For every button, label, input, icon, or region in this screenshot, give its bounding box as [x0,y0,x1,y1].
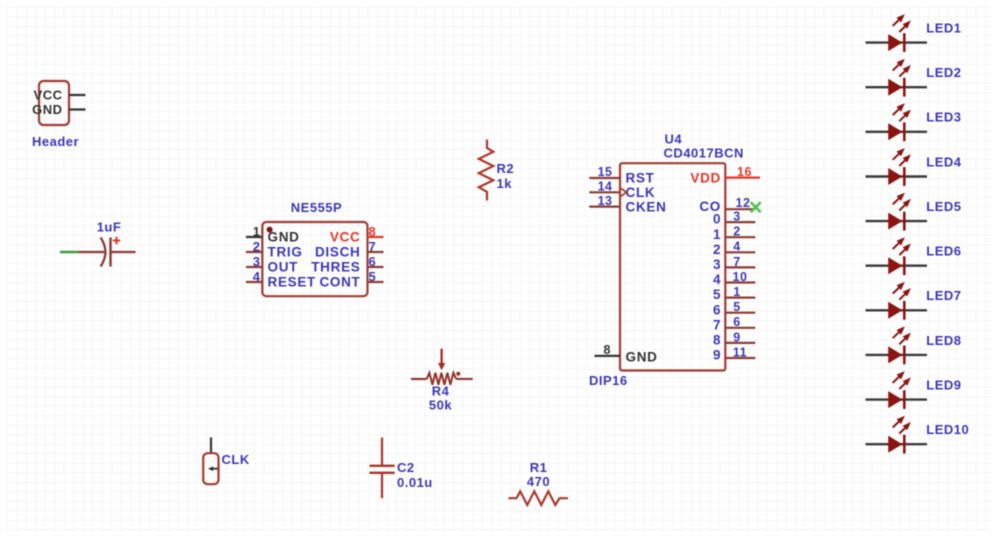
U4 pin 15 (RST) [589,165,654,186]
svg-text:CLK: CLK [222,452,250,467]
svg-text:2: 2 [733,225,740,239]
LED LED2 [866,59,928,97]
svg-text:9: 9 [713,348,721,363]
svg-text:OUT: OUT [268,260,299,275]
svg-text:9: 9 [733,330,740,344]
svg-text:8: 8 [713,333,721,348]
svg-text:3: 3 [713,257,721,272]
svg-text:VDD: VDD [690,170,721,185]
NE555P pin 1 (GND) [246,224,300,245]
NE555P pin 6 (THRES) [311,254,383,275]
svg-text:15: 15 [598,165,613,179]
svg-text:6: 6 [713,302,721,317]
svg-text:CKEN: CKEN [626,199,667,214]
IC U4 body [620,163,725,370]
svg-text:10: 10 [733,270,748,284]
NE555P pin 4 (RESET) [246,269,316,290]
svg-text:13: 13 [598,194,613,208]
svg-text:7: 7 [369,239,377,254]
svg-text:DISCH: DISCH [315,245,361,260]
svg-text:LED4: LED4 [926,154,962,169]
svg-text:12: 12 [736,196,751,210]
svg-text:4: 4 [713,272,721,287]
U4 pin 9 (out 8) [713,330,755,347]
NE555P pin 2 (TRIG) [246,239,303,260]
svg-text:3: 3 [253,254,261,269]
svg-text:2: 2 [713,242,721,257]
svg-text:CD4017BCN: CD4017BCN [664,145,744,160]
svg-text:4: 4 [733,240,740,254]
port CLK box [203,453,218,484]
svg-text:CONT: CONT [319,275,360,290]
U4 pin 12 (CO) [699,196,755,214]
svg-text:RESET: RESET [268,275,317,290]
svg-text:R1: R1 [530,460,548,475]
svg-text:6: 6 [369,254,377,269]
svg-text:2: 2 [253,239,261,254]
svg-text:5: 5 [733,300,740,314]
svg-text:1: 1 [713,227,721,242]
svg-text:C2: C2 [397,460,415,475]
U4 pin 7 (out 3) [713,255,755,272]
Header pin GND [32,102,85,117]
U4 pin 14 (CLK) [589,180,655,201]
svg-text:DIP16: DIP16 [589,373,628,388]
no-connect X on pin 12 [751,202,761,212]
svg-text:5: 5 [713,287,721,302]
svg-text:VCC: VCC [330,230,361,245]
svg-text:14: 14 [598,180,613,194]
svg-text:11: 11 [733,345,747,359]
svg-text:8: 8 [369,224,377,239]
svg-text:1k: 1k [497,176,513,191]
LED LED6 [866,237,928,275]
capacitor C2 [370,438,395,499]
U4 pin 10 (out 4) [713,270,755,287]
svg-text:6: 6 [733,315,740,329]
svg-text:GND: GND [32,102,62,117]
svg-text:LED6: LED6 [926,244,961,259]
NE555P pin 3 (OUT) [246,254,298,275]
LED LED4 [866,148,928,186]
svg-text:LED2: LED2 [926,65,961,80]
svg-text:GND: GND [626,349,658,364]
NE555P pin 8 (VCC) [330,224,384,245]
connector Header box [39,81,69,125]
svg-text:TRIG: TRIG [268,245,303,260]
U4 pin 4 (out 2) [713,240,755,257]
svg-text:7: 7 [733,255,740,269]
svg-text:R4: R4 [432,383,450,398]
U4 pin 2 (out 1) [713,225,755,242]
svg-text:U4: U4 [665,132,683,147]
svg-text:LED10: LED10 [926,422,969,437]
pin-1 dot [267,227,273,233]
capacitor 1uF (polarized) [79,237,136,267]
svg-text:5: 5 [369,269,377,284]
svg-text:CLK: CLK [626,185,656,200]
wire (green) to capacitor 1uF [60,251,79,254]
svg-text:1: 1 [253,224,261,239]
svg-text:GND: GND [268,230,300,245]
svg-text:LED1: LED1 [926,21,961,36]
U4 pin 6 (out 7) [713,315,755,332]
svg-text:LED9: LED9 [926,378,961,393]
svg-text:LED8: LED8 [926,333,961,348]
NE555P pin 5 (CONT) [319,269,383,290]
LED LED1 [866,14,928,52]
trimmer resistor R4 [411,349,473,385]
U4 pin 13 (CKEN) [589,194,666,215]
wire to CLK port [210,437,212,454]
U4 pin 16 (VDD) [690,165,760,186]
U4 pin 1 (out 5) [713,285,755,302]
svg-text:NE555P: NE555P [291,200,342,215]
svg-text:THRES: THRES [311,260,360,275]
svg-text:470: 470 [527,474,550,489]
U4 pin 11 (out 9) [713,345,755,362]
svg-text:8: 8 [604,343,611,357]
U4 pin 8 (GND) [594,343,657,364]
svg-text:50k: 50k [429,398,452,413]
svg-text:LED7: LED7 [926,288,961,303]
resistor R1 [508,491,568,505]
resistor R2 [479,140,494,201]
svg-text:7: 7 [713,317,721,332]
svg-text:4: 4 [253,269,261,284]
svg-text:R2: R2 [497,161,515,176]
svg-text:3: 3 [733,210,740,224]
IC NE555P body [262,222,367,296]
svg-text:Header: Header [32,134,79,149]
LED LED9 [866,371,928,409]
U4 pin 5 (out 6) [713,300,755,317]
NE555P pin 7 (DISCH) [315,239,384,260]
LED LED10 [866,416,928,454]
LED LED8 [866,326,928,364]
svg-text:0.01u: 0.01u [397,475,433,490]
svg-text:LED5: LED5 [926,199,961,214]
svg-text:1uF: 1uF [97,220,122,235]
svg-text:RST: RST [626,171,655,186]
svg-text:1: 1 [733,285,740,299]
svg-text:0: 0 [713,212,721,227]
U4 pin 3 (out 0) [713,210,755,227]
svg-text:16: 16 [737,165,752,179]
LED LED5 [866,193,928,231]
svg-text:VCC: VCC [34,88,63,103]
LED LED7 [866,282,928,320]
Header pin VCC [34,88,86,103]
svg-text:LED3: LED3 [926,110,961,125]
LED LED3 [866,103,928,141]
